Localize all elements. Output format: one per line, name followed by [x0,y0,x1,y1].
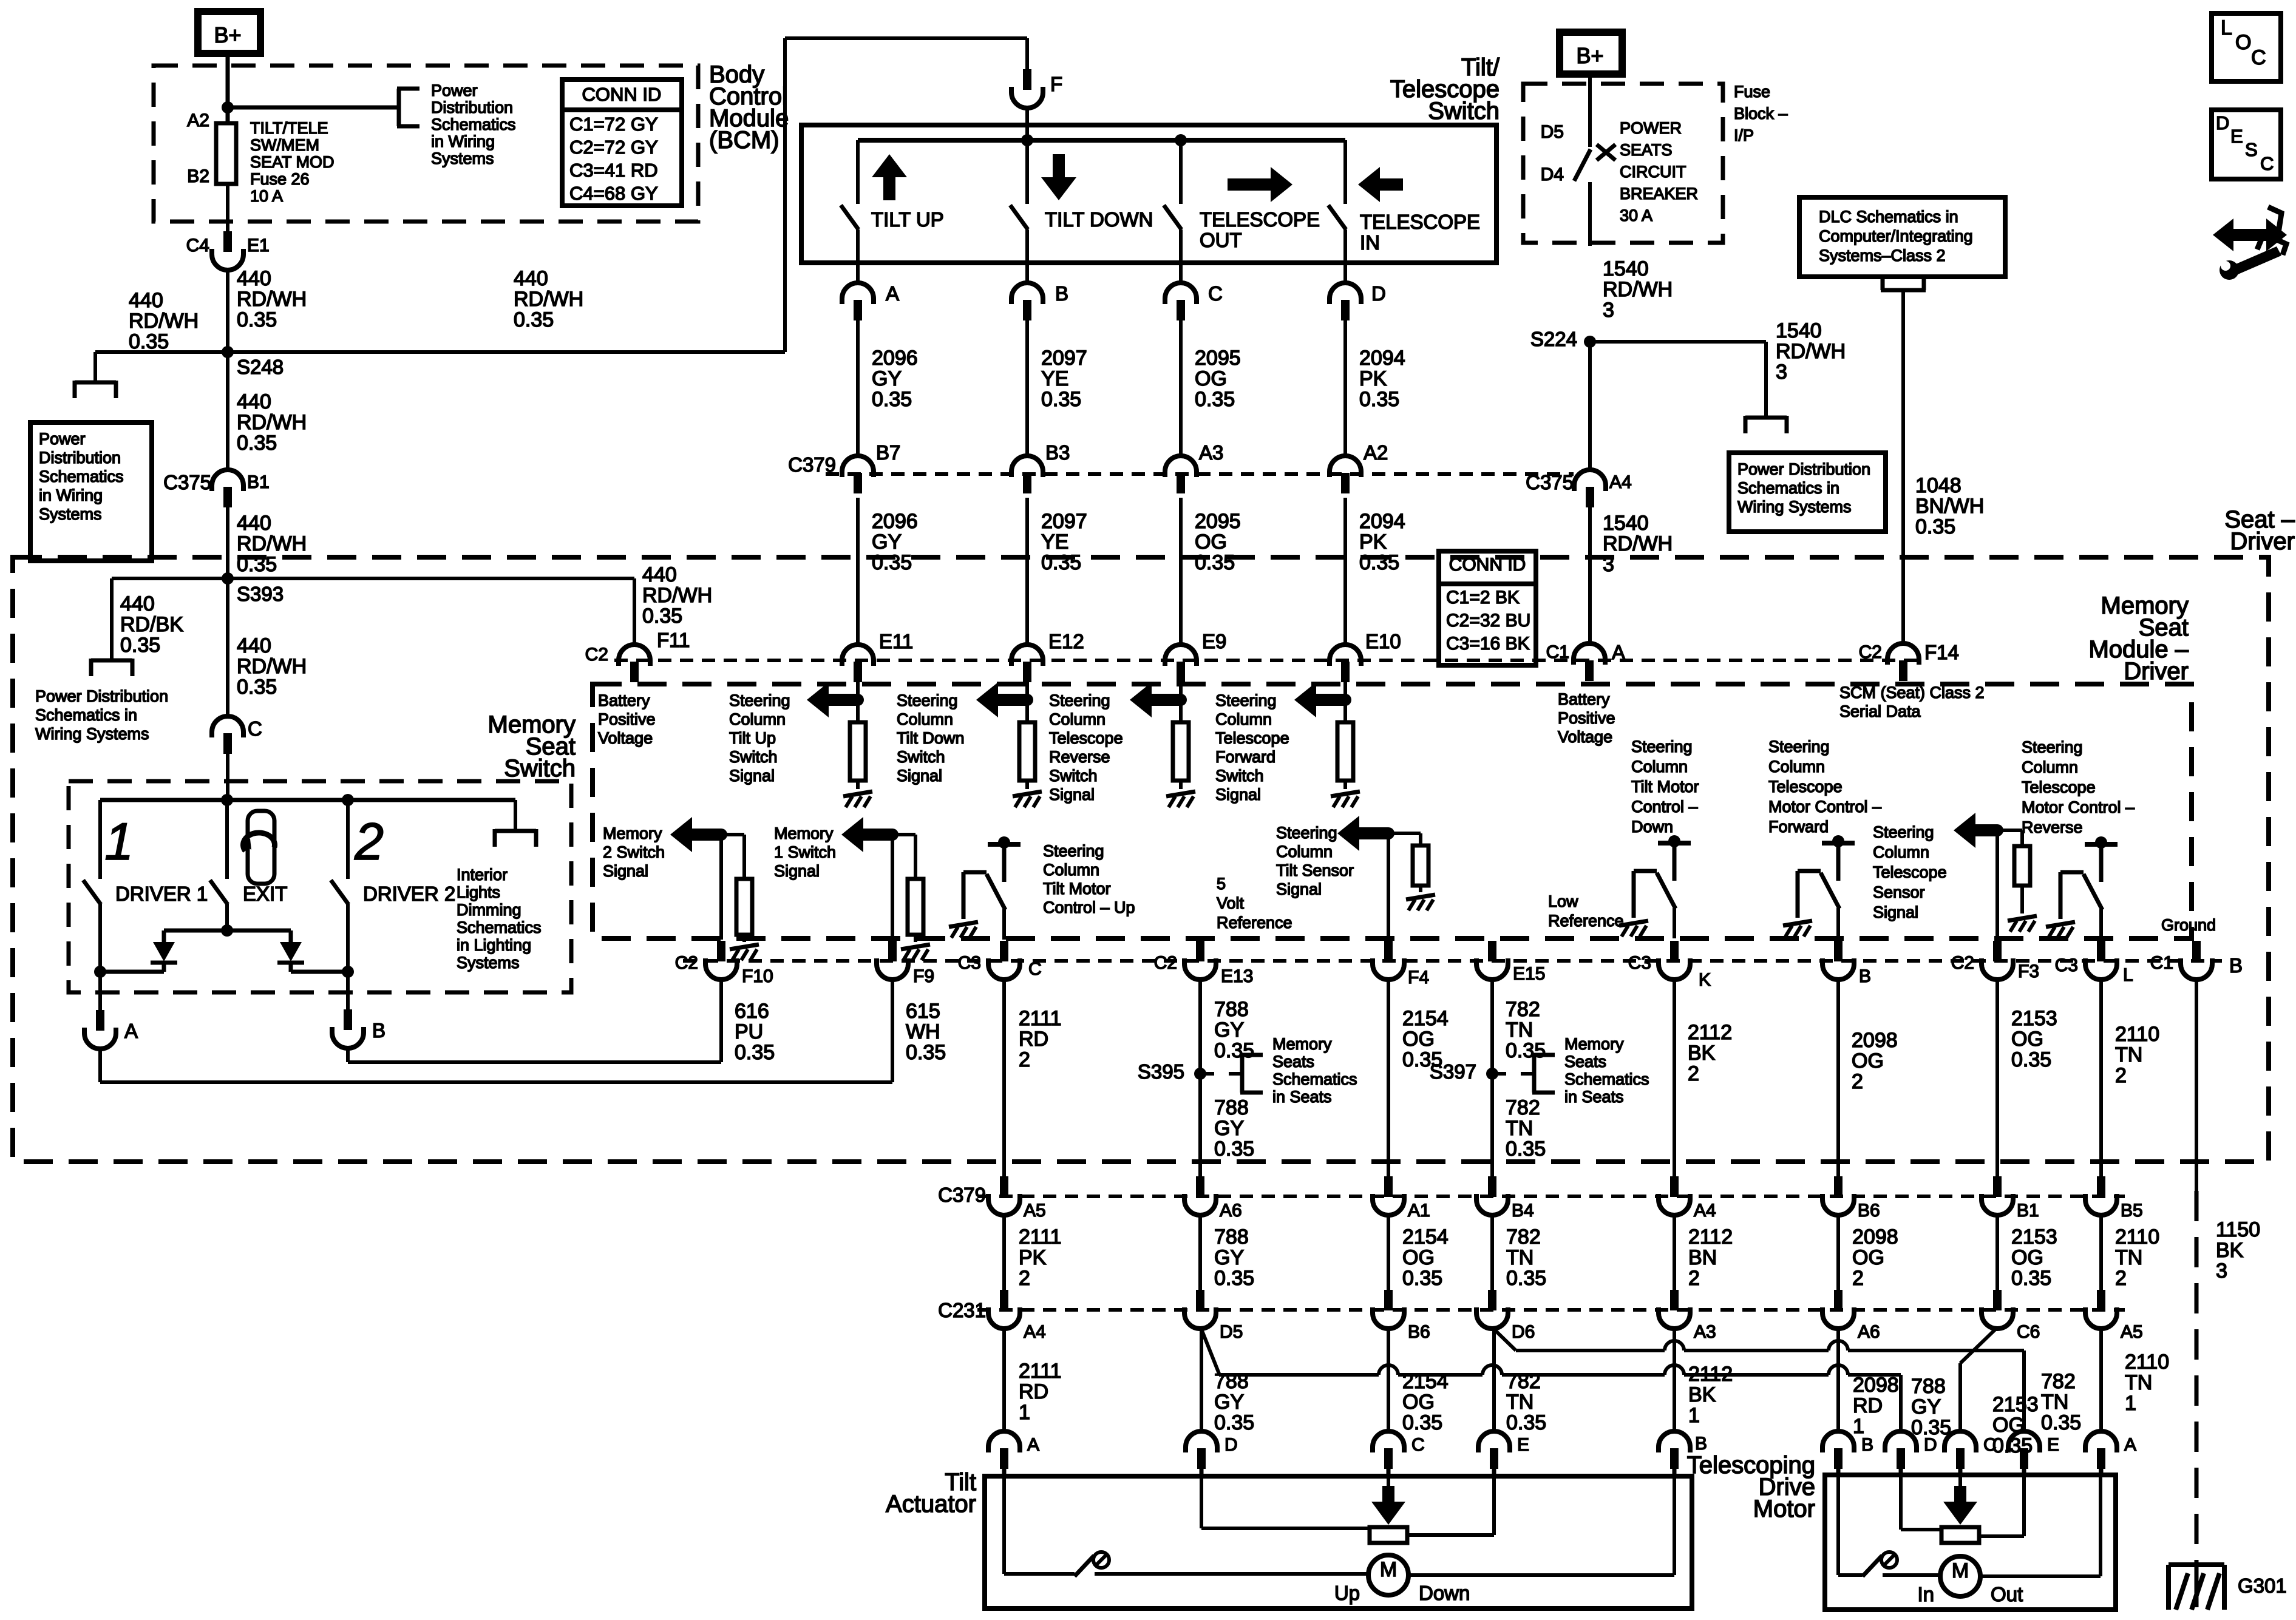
connector C231 pin A6 [1834,1290,1843,1310]
telescope position sensor feed (D) [1899,1469,1903,1530]
memory seat switch dashed box [69,781,571,992]
svg-text:Column: Column [729,710,786,728]
svg-text:Seats: Seats [1564,1052,1606,1071]
svg-text:782: 782 [2041,1370,2076,1393]
svg-text:Up: Up [1334,1582,1360,1604]
svg-text:C2: C2 [1951,953,1974,973]
svg-text:2111: 2111 [1019,1007,1062,1030]
svg-text:SEAT MOD: SEAT MOD [250,153,335,171]
connector pin E15 [1488,941,1496,961]
svg-text:TN: TN [2041,1391,2068,1414]
svg-text:RD/WH: RD/WH [514,288,583,311]
svg-text:C2: C2 [1859,642,1882,662]
wire C to C379 [1179,320,1183,456]
svg-text:Motor Control –: Motor Control – [2022,798,2135,816]
connector row C379 (lower) [977,1195,2125,1198]
tilt actuator pin B [1659,1431,1690,1452]
svg-text:0.35: 0.35 [2011,1267,2051,1290]
svg-text:Column: Column [1873,843,1929,861]
svg-text:BN: BN [1688,1246,1717,1269]
svg-text:C375: C375 [163,471,211,493]
svg-text:788: 788 [1214,1225,1249,1249]
tilt actuator limit switch [1075,1556,1094,1576]
svg-text:0.35: 0.35 [1402,1411,1442,1434]
svg-text:0.35: 0.35 [2041,1411,2081,1434]
svg-text:POWER: POWER [1620,119,1682,137]
svg-text:S393: S393 [237,583,284,605]
memory 1 switch signal group [891,835,894,940]
svg-text:Power: Power [431,81,478,100]
svg-text:Steering: Steering [1768,737,1830,756]
switch TELESCOPE IN with left arrow [1343,140,1347,204]
tilt actuator pin C [1373,1431,1404,1452]
telescope sensor signal group (F3) [1995,830,1999,940]
svg-text:B: B [1055,282,1068,305]
box: Power Distribution Schematics in Wiring Systems [30,422,152,561]
svg-text:Memory: Memory [1564,1035,1624,1053]
svg-text:Motor Control –: Motor Control – [1768,798,1881,816]
svg-text:Switch: Switch [897,748,945,766]
ground G301 [2169,1562,2224,1567]
svg-text:OG: OG [1852,1049,1884,1073]
node driver2 output [342,966,354,978]
connector C3 pin L [2097,941,2105,961]
wire C231 D5 to tilt actuator D (788 GY) [1200,1327,1203,1431]
svg-text:Column: Column [1049,710,1106,728]
svg-text:Tilt Sensor: Tilt Sensor [1276,861,1354,879]
svg-text:C375: C375 [1526,471,1574,493]
connector pin B (tilt down) [1011,283,1043,304]
reference bracket right (memory seats) [1532,1055,1537,1093]
svg-text:440: 440 [129,289,163,312]
svg-text:2098: 2098 [1853,1374,1899,1397]
svg-text:2: 2 [2115,1064,2127,1087]
svg-text:440: 440 [237,512,271,535]
wire C231 C6 jog to telescoping C (2153 OG) [1960,1329,1996,1363]
svg-text:Distribution: Distribution [431,98,513,117]
svg-text:Signal: Signal [774,862,820,880]
svg-text:B6: B6 [1408,1322,1430,1342]
svg-text:TILT UP: TILT UP [871,208,944,231]
svg-text:440: 440 [514,267,548,290]
svg-text:Actuator: Actuator [886,1491,976,1517]
wire A to module F9 (615 WH) [98,1048,102,1082]
tilt position potentiometer [1370,1527,1407,1543]
svg-text:A6: A6 [1858,1322,1880,1342]
svg-text:B: B [1859,966,1871,986]
wire S393 to memory seat module F11 (440 RD/WH) [228,577,634,580]
service icon (wrench with arrows) [2213,219,2287,251]
svg-text:Telescope: Telescope [1768,778,1843,796]
svg-text:Signal: Signal [1215,785,1261,804]
svg-text:D: D [1224,1435,1238,1455]
wire between C379 and C231 [1995,1214,1999,1290]
connector pin A (memory seat switch) [98,972,102,1017]
tilt sensor signal group (F4) [1387,833,1390,940]
wire C375 to S393 [226,507,229,716]
svg-text:B: B [372,1019,385,1042]
svg-text:GY: GY [1214,1117,1244,1140]
svg-text:C1: C1 [1546,642,1569,662]
wire to power distribution reference [228,106,399,110]
svg-text:1: 1 [104,813,134,871]
svg-text:GY: GY [1214,1018,1244,1042]
svg-text:G301: G301 [2238,1574,2287,1597]
svg-text:0.35: 0.35 [237,308,277,331]
svg-text:Memory: Memory [1272,1035,1332,1053]
svg-text:440: 440 [237,267,271,290]
svg-text:Reference: Reference [1548,912,1624,930]
svg-text:GY: GY [872,367,902,390]
wire S248 to C375 [226,352,229,470]
svg-text:Power: Power [39,430,86,448]
connector C2 pin E11 [842,645,874,666]
svg-text:D4: D4 [1541,164,1564,185]
svg-text:Column: Column [1215,710,1272,728]
svg-text:B: B [2229,954,2243,977]
svg-text:BK: BK [2216,1239,2244,1262]
wire between C379 and C231 [1387,1214,1390,1290]
connector C2 pin E13 [1196,941,1204,961]
svg-text:0.35: 0.35 [1214,1039,1254,1062]
telescoping limit switch [1863,1556,1882,1576]
svg-text:2097: 2097 [1041,510,1087,533]
motor M (tilt) [1368,1555,1408,1595]
svg-text:2097: 2097 [1041,347,1087,370]
svg-text:Column: Column [1768,757,1825,776]
wire between C379 and C231 [1002,1214,1006,1290]
svg-text:RD: RD [1853,1394,1883,1417]
wire 782 TN branch to telescoping E (with hops) [1494,1329,1516,1351]
svg-text:B: B [1695,1434,1707,1454]
svg-text:A: A [1612,641,1625,663]
svg-text:Voltage: Voltage [598,729,653,747]
svg-text:0.35: 0.35 [1195,551,1235,574]
pull resistor and ground (Steering Column Tilt Up Switch Signal) [856,700,860,722]
connector C379 pin A2 [1330,456,1361,477]
wire L to C379 B5 [2099,978,2103,1177]
wire switch to motor [1883,1573,1940,1577]
svg-text:Column: Column [897,710,953,728]
svg-text:Reference: Reference [1217,913,1292,932]
svg-text:OG: OG [2011,1246,2043,1269]
signal wire into module (Steering Column Tilt Down Switch Signal) [1025,681,1029,700]
connector C231 pin A5 [2097,1290,2105,1310]
svg-text:Telescope: Telescope [2022,778,2096,796]
connector C231 pin B6 [1384,1290,1393,1310]
svg-text:DLC Schematics in: DLC Schematics in [1819,208,1958,226]
svg-text:0.35: 0.35 [129,330,169,353]
connector pin A (tilt up) [842,283,874,304]
svg-text:B5: B5 [2121,1201,2143,1221]
splice S393 [222,572,234,585]
svg-text:2153: 2153 [2011,1225,2057,1249]
wire fuse B2 to connector C4 [226,184,229,234]
connector C231 pin A3 [1670,1290,1679,1310]
reference bracket (power distribution schematics) [397,89,401,126]
wire motor to pin B [1408,1573,1674,1577]
connector C4 / pin E1 [223,231,232,252]
svg-text:Signal: Signal [1049,785,1095,804]
connector C / memory seat switch feed [212,716,243,737]
wire B7 to E11 [856,498,860,645]
svg-text:Voltage: Voltage [1558,728,1612,746]
svg-text:E9: E9 [1202,630,1226,652]
connector C2 pin E12 [1011,645,1043,666]
svg-text:C231: C231 [938,1299,986,1321]
node driver1 output [94,966,106,978]
svg-text:A5: A5 [1024,1201,1046,1221]
svg-text:2111: 2111 [1019,1360,1062,1383]
svg-text:RD/WH: RD/WH [237,411,307,434]
DLC schematics box [1799,197,2005,277]
reference bracket right (memory seats) [1240,1055,1245,1093]
svg-text:2: 2 [2115,1267,2127,1290]
wire C231 A5 to telescoping A (2110 TN 1) [2099,1327,2103,1431]
svg-text:Systems: Systems [39,505,102,523]
svg-text:2098: 2098 [1852,1225,1898,1249]
svg-text:Reverse: Reverse [2022,818,2083,836]
svg-text:C1: C1 [2150,953,2173,973]
svg-text:Fuse 26: Fuse 26 [250,170,310,188]
svg-text:WH: WH [906,1020,940,1043]
svg-text:RD: RD [1019,1028,1048,1051]
svg-text:0.35: 0.35 [237,432,277,455]
svg-text:Tilt Up: Tilt Up [729,729,776,747]
svg-text:B1: B1 [2017,1201,2039,1221]
svg-text:Schematics in: Schematics in [35,706,137,724]
connector C2 pin F14 [1887,643,1919,665]
svg-text:Switch: Switch [1049,767,1098,785]
svg-text:2: 2 [1019,1048,1030,1071]
LOC reference box [2212,13,2281,81]
svg-text:C: C [1411,1435,1425,1455]
svg-text:in Seats: in Seats [1564,1088,1624,1106]
svg-text:D: D [2216,112,2229,134]
telescoping pin C [1944,1431,1976,1452]
wire between C379 and C231 [1198,1214,1202,1290]
tilt actuator pin D [1186,1431,1217,1452]
svg-text:C1=2 BK: C1=2 BK [1446,588,1520,608]
connector C2 pin E9 [1165,645,1197,666]
svg-text:S397: S397 [1430,1060,1476,1083]
svg-text:2094: 2094 [1359,510,1405,533]
svg-text:RD/WH: RD/WH [1603,278,1673,301]
relay: steering column tilt motor control - down [1668,835,1680,847]
splice S248 [222,346,234,358]
connector C379 pin B5 [2097,1176,2105,1197]
svg-text:F9: F9 [913,966,934,986]
svg-text:440: 440 [120,592,155,615]
tilt position sensor return (E) [1492,1469,1496,1535]
svg-text:Steering: Steering [729,691,790,710]
svg-text:F11: F11 [657,629,690,651]
arrow: Steering Column Telescope Reverse Switch Signal [1130,682,1152,717]
module input connector row [614,659,1924,662]
svg-text:OG: OG [1402,1028,1435,1051]
svg-text:Telescope: Telescope [1873,863,1947,881]
svg-text:TN: TN [2115,1043,2142,1066]
svg-text:Volt: Volt [1217,894,1245,912]
svg-text:C2=32 BU: C2=32 BU [1446,611,1530,631]
svg-text:OG: OG [1852,1246,1884,1269]
svg-text:1150: 1150 [2216,1218,2260,1241]
svg-text:Switch: Switch [1428,98,1500,124]
svg-text:0.35: 0.35 [906,1041,946,1064]
svg-text:1540: 1540 [1776,319,1822,342]
connector C2 pin F11 [619,645,650,666]
svg-text:S248: S248 [237,356,284,378]
connector C231 pin A4 [1000,1290,1008,1310]
svg-text:BK: BK [1688,1383,1716,1406]
svg-text:1: 1 [1019,1401,1030,1424]
svg-text:A4: A4 [1609,472,1632,492]
node rail/driver2 [342,794,354,806]
svg-text:TN: TN [1506,1391,1533,1414]
svg-text:788: 788 [1214,998,1249,1021]
svg-text:Computer/Integrating: Computer/Integrating [1819,227,1973,245]
svg-text:SEATS: SEATS [1620,141,1673,159]
svg-text:OG: OG [1402,1246,1435,1269]
svg-text:A3: A3 [1199,441,1223,464]
svg-text:CONN ID: CONN ID [1449,555,1526,575]
svg-text:E: E [1517,1435,1529,1455]
svg-text:C3: C3 [958,953,981,973]
reference bracket down (power distribution) [75,381,116,385]
svg-text:RD/WH: RD/WH [1603,532,1673,555]
tilt/telescope switch inner rail [858,138,1345,143]
svg-text:C2: C2 [675,953,698,973]
svg-text:Schematics: Schematics [39,467,124,486]
svg-text:Ground: Ground [2161,916,2216,934]
svg-text:Schematics: Schematics [1272,1070,1357,1088]
svg-text:C: C [248,717,262,740]
svg-text:782: 782 [1506,1225,1541,1249]
svg-text:TELESCOPE: TELESCOPE [1200,208,1320,231]
tilt/telescope switch outer box [801,125,1496,263]
svg-text:in Wiring: in Wiring [39,486,103,504]
svg-text:OG: OG [2011,1028,2043,1051]
telescope position potentiometer [1941,1527,1979,1543]
svg-text:RD/BK: RD/BK [120,613,183,636]
svg-text:GY: GY [1911,1395,1941,1418]
svg-text:Steering: Steering [1049,691,1110,710]
svg-text:0.35: 0.35 [1506,1267,1546,1290]
svg-text:2110: 2110 [2115,1225,2159,1249]
svg-text:Positive: Positive [598,710,656,728]
wire 788 GY branch to telescoping D (with hops) [1201,1329,1219,1374]
svg-text:0.35: 0.35 [1506,1411,1546,1434]
connector C375 / pin A4 [1574,470,1606,491]
svg-text:Fuse: Fuse [1734,83,1770,101]
wire D to C379 [1343,320,1347,456]
svg-text:Driver: Driver [2124,658,2189,685]
svg-text:782: 782 [1506,1096,1540,1119]
svg-text:B+: B+ [214,22,241,47]
svg-text:Column: Column [2022,758,2078,776]
arrow: Steering Column Tilt Up Switch Signal [807,682,829,717]
wire A3 to E9 [1179,498,1183,645]
svg-text:Tilt Motor: Tilt Motor [1043,879,1111,898]
svg-text:TN: TN [2125,1371,2152,1394]
wire C231 A3 to tilt actuator B (2112 BK 1) [1673,1327,1676,1431]
svg-text:Driver: Driver [2230,528,2295,555]
pull resistor and ground (Steering Column Telescope Forward Switch Signal) [1343,700,1347,722]
box: Power Distribution Schematics in Wiring Systems (right) [1729,453,1886,532]
svg-text:RD/WH: RD/WH [237,655,307,678]
svg-text:Down: Down [1631,818,1673,836]
svg-text:IN: IN [1360,231,1380,254]
connector pin B (memory seat switch) [346,972,350,1017]
svg-text:616: 616 [735,1000,769,1023]
svg-text:1048: 1048 [1915,474,1961,497]
svg-text:O: O [2235,31,2251,54]
svg-text:788: 788 [1214,1096,1249,1119]
wire B to C379 B6 [1836,978,1840,1177]
svg-text:440: 440 [642,563,677,586]
svg-text:E15: E15 [1513,964,1545,984]
exit icon (car door) [248,811,274,884]
connector pin F9 [888,941,897,961]
switch DRIVER 2 [346,800,350,879]
svg-text:E: E [2230,126,2243,147]
svg-text:A5: A5 [2121,1322,2143,1342]
svg-text:782: 782 [1506,998,1540,1021]
svg-text:PK: PK [1359,530,1387,554]
svg-text:Power Distribution: Power Distribution [35,687,168,705]
svg-text:B2: B2 [187,166,209,186]
svg-text:L: L [2123,965,2133,985]
svg-text:Signal: Signal [603,862,648,880]
svg-text:RD: RD [1019,1380,1048,1403]
svg-text:Control –: Control – [1631,798,1698,816]
svg-text:Steering: Steering [1631,737,1693,756]
connector F (tilt/telescope switch) [1023,69,1031,90]
svg-text:BK: BK [1688,1042,1716,1065]
svg-text:2110: 2110 [2125,1351,2169,1374]
svg-text:0.35: 0.35 [642,605,682,628]
svg-text:Steering: Steering [1043,842,1104,860]
connector pin B (2098) [1834,941,1843,961]
svg-text:TILT DOWN: TILT DOWN [1045,208,1153,231]
svg-text:2154: 2154 [1402,1007,1449,1030]
svg-text:0.35: 0.35 [1041,551,1081,574]
svg-text:Forward: Forward [1215,748,1275,766]
ground wire 1150 BK 3 (dashed below) [2195,978,2198,1191]
svg-text:A3: A3 [1694,1322,1716,1342]
svg-text:1540: 1540 [1603,512,1649,535]
module output connector row [683,959,2222,963]
connector row C231 [977,1308,2125,1312]
telescope position sensor return (E) [2022,1469,2026,1536]
switch feed rail [100,798,515,802]
svg-text:C: C [1983,1435,1997,1455]
signal wire into module (Steering Column Tilt Up Switch Signal) [856,681,860,700]
wire C231 A4 to tilt actuator A (2111 RD 1) [1002,1327,1006,1431]
svg-text:2 Switch: 2 Switch [603,843,665,861]
node exit/diode rail [221,924,233,937]
svg-text:C: C [2260,153,2274,174]
connector C2 pin F3 [1993,941,2002,961]
svg-text:C3: C3 [1628,953,1651,973]
svg-text:Steering: Steering [897,691,958,710]
telescoping pin E [2008,1431,2040,1452]
svg-text:Power Distribution: Power Distribution [1737,460,1870,478]
wire B+ to circuit breaker [1588,78,1592,147]
svg-text:B6: B6 [1858,1201,1880,1221]
svg-text:0.35: 0.35 [1041,388,1081,411]
svg-text:F4: F4 [1408,968,1429,988]
